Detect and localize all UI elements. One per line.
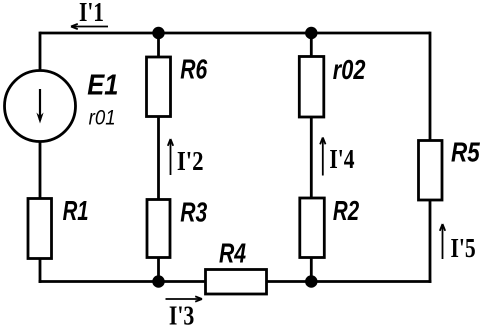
svg-text:R6: R6 xyxy=(180,53,207,84)
wire branch R6 top xyxy=(157,33,160,57)
svg-text:R3: R3 xyxy=(180,196,207,227)
wire left rail mid xyxy=(39,142,42,199)
svg-text:R5: R5 xyxy=(451,136,480,167)
resistor r02 xyxy=(299,57,324,118)
svg-text:I'2: I'2 xyxy=(177,146,204,176)
arrow current I'1 xyxy=(71,24,108,29)
svg-text:R4: R4 xyxy=(219,238,246,269)
node top-right junction xyxy=(306,28,317,39)
svg-text:R2: R2 xyxy=(333,195,360,226)
wire left rail upper xyxy=(39,32,42,71)
arrow current I'4 xyxy=(320,138,325,176)
node bottom-right junction xyxy=(306,276,317,287)
svg-text:r01: r01 xyxy=(89,107,116,130)
voltage source E1 xyxy=(5,71,76,142)
svg-text:I'5: I'5 xyxy=(451,233,476,263)
wire branch R3 bottom xyxy=(157,258,160,282)
resistor R6 xyxy=(147,57,171,117)
wire right rail lower xyxy=(429,200,432,283)
wire bottom rail left xyxy=(39,280,206,283)
svg-text:I'4: I'4 xyxy=(329,144,354,174)
wire branch R2 bottom xyxy=(310,258,313,282)
svg-text:I'1: I'1 xyxy=(79,0,104,27)
arrow current I'5 xyxy=(440,224,445,259)
wire branch r02 top xyxy=(310,33,313,57)
svg-text:R1: R1 xyxy=(63,195,89,226)
wire top rail xyxy=(40,32,430,35)
svg-text:r02: r02 xyxy=(333,54,366,85)
svg-text:I'3: I'3 xyxy=(169,300,194,330)
wire bottom rail right xyxy=(267,280,432,283)
svg-text:E1: E1 xyxy=(87,69,118,101)
arrow current I'3 xyxy=(166,296,203,301)
arrow current I'2 xyxy=(168,139,173,175)
resistor R2 xyxy=(300,198,325,258)
wire left rail lower xyxy=(39,259,42,283)
wire between R6 and R3 xyxy=(157,117,160,200)
wire right rail upper xyxy=(429,32,432,141)
resistor R4 xyxy=(206,270,267,295)
node bottom-left junction xyxy=(153,276,164,287)
resistor R5 xyxy=(419,141,443,201)
resistor R3 xyxy=(147,200,170,258)
wire between r02 and R2 xyxy=(310,117,313,198)
node top-left junction xyxy=(153,28,164,39)
resistor R1 xyxy=(28,199,52,259)
